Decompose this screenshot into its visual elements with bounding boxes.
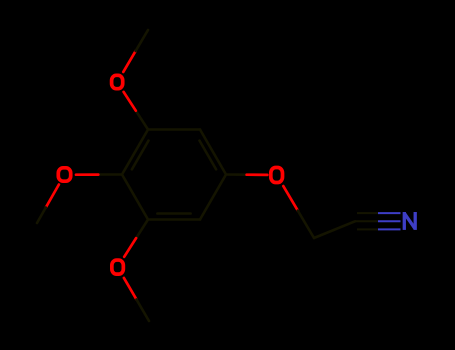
nitrile triple bond C#N bottom line (blue half)	[378, 228, 401, 230]
bond CH2 to nitrile C	[314, 221, 355, 238]
bond O left to CH3 (carbon half)	[37, 208, 46, 224]
atom O left	[58, 168, 70, 181]
nitrile triple bond C#N bottom line (carbon half)	[357, 228, 378, 230]
atom O bottom-left	[112, 260, 124, 274]
atom O right	[271, 168, 283, 183]
bond ring-R to O right (carbon half)	[226, 173, 247, 176]
wire ring edge BL-L	[122, 175, 148, 220]
bond ring-TL to O top-left (red half)	[124, 92, 136, 111]
wire ring inner double bond BR-BL	[157, 212, 190, 215]
bond O bottom-left to CH3 (red half)	[124, 278, 137, 300]
bond ring-BL to O bottom-left (red half)	[124, 238, 136, 257]
bond O right to CH2 (red half)	[283, 186, 298, 211]
wire ring edge TL-TR	[148, 128, 200, 131]
nitrile triple bond C#N middle line (carbon half)	[355, 220, 378, 222]
atom O top-left	[112, 75, 123, 88]
bond ring-L to O left (red half)	[76, 173, 98, 176]
bond O top-left to CH3 (carbon half)	[136, 30, 148, 51]
nitrile triple bond C#N top line (blue half)	[378, 212, 401, 214]
bond O right to CH2 (carbon half)	[298, 211, 314, 238]
wire ring edge TR-R	[200, 130, 226, 175]
bond ring-L to O left (carbon half)	[98, 173, 122, 176]
bond ring-TL to O top-left (carbon half)	[136, 111, 148, 130]
wire ring edge L-TL	[122, 130, 148, 175]
wire ring inner double bond TR-R	[200, 141, 217, 170]
atom N of nitrile	[404, 212, 415, 230]
bond O left to CH3 (red half)	[46, 185, 59, 208]
bond ring-BL to O bottom-left (carbon half)	[136, 220, 148, 239]
wire ring edge BR-BL	[148, 218, 200, 221]
bond O bottom-left to CH3 (carbon half)	[136, 299, 149, 321]
bond O top-left to CH3 (red half)	[123, 51, 135, 72]
nitrile triple bond C#N middle line (blue half)	[378, 220, 401, 222]
nitrile triple bond C#N top line (carbon half)	[357, 212, 378, 214]
benzene ring	[122, 130, 226, 220]
wire ring inner double bond L-TL	[132, 141, 149, 170]
wire ring edge R-BR	[200, 175, 226, 220]
bond ring-R to O right (red half)	[247, 173, 268, 176]
